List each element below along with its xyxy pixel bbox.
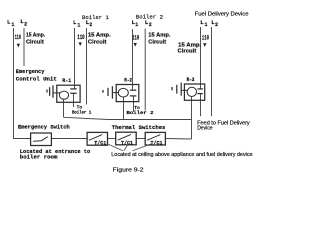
wire L2 fuel delivery — [211, 27, 213, 116]
svg-text:2: 2 — [24, 22, 27, 28]
relay R-1 contact bar bottom — [70, 92, 76, 94]
relay R-1 plug wire to coil — [54, 92, 61, 94]
svg-text:R-2: R-2 — [124, 77, 132, 83]
relay R-1 coil circle — [59, 91, 68, 99]
svg-text:1: 1 — [135, 22, 138, 28]
svg-text:To: To — [77, 104, 83, 110]
svg-text:Emergency Switch: Emergency Switch — [18, 125, 70, 131]
wire R-3 coil return down to thermal bus — [191, 96, 193, 139]
wire L1 feed boiler1 into R-1 contact — [74, 28, 76, 89]
wire coil-return bus — [64, 117, 192, 119]
emergency switch blade — [33, 137, 48, 142]
wire R-1 contact output stub (To Boiler 1) — [73, 93, 75, 107]
relay R-3 plug bar short — [171, 87, 173, 90]
relay R-1 plug bar medium — [49, 87, 51, 96]
wire L2 boiler1 — [86, 28, 88, 105]
thermal switch T/C1 (third) — [145, 132, 165, 145]
wire thermal bus: emergency switch to T/C1 — [51, 138, 87, 140]
wire R-1 coil return — [63, 99, 65, 117]
thermal switch T/C1 (first) — [87, 132, 107, 145]
svg-text:R-3: R-3 — [187, 77, 195, 83]
relay R-2 contact bar top — [130, 89, 136, 91]
svg-text:T/C1: T/C1 — [121, 141, 133, 147]
wire thermal bus: third thermal switch to R-3 coil return — [165, 138, 191, 141]
thermal switch 3 box — [145, 132, 165, 145]
relay R-1 contact bar top — [70, 88, 76, 90]
svg-text:1: 1 — [77, 22, 80, 28]
relay R-2 box — [116, 85, 139, 102]
thermal switch 3 blade — [147, 135, 160, 141]
svg-text:110: 110 — [202, 34, 209, 41]
relay R-3 contact bar bottom — [197, 93, 203, 95]
svg-text:Circuit: Circuit — [88, 40, 107, 46]
svg-text:1: 1 — [205, 22, 208, 28]
svg-text:15 Amp.: 15 Amp. — [88, 33, 111, 39]
emergency switch box — [31, 133, 52, 146]
svg-text:2: 2 — [149, 22, 152, 28]
wire R-2 contact output stub (To Boiler 2) — [133, 96, 135, 112]
relay R-3 coil circle — [187, 87, 196, 96]
svg-text:Device: Device — [197, 126, 213, 132]
svg-text:110: 110 — [132, 35, 139, 42]
svg-text:Located at ceiling above appli: Located at ceiling above appliance and f… — [111, 152, 253, 158]
relay R-3 box — [184, 84, 204, 100]
svg-text:Boiler 1: Boiler 1 — [72, 110, 92, 116]
wire L1 feed fuel delivery into R-3 contact — [200, 27, 202, 89]
wire R-2 coil return — [123, 97, 125, 120]
wire thermal bus: left rail to emergency switch — [13, 138, 31, 140]
wire R-3 contact output stub (Feed to Fuel Delivery Device) — [200, 94, 202, 117]
wire L2 group1 — [23, 28, 25, 66]
svg-text:15 Amp.: 15 Amp. — [148, 33, 171, 39]
wire L1 feed boiler2 into R-2 contact — [132, 29, 134, 90]
svg-text:110: 110 — [15, 34, 21, 41]
svg-text:Figure 9-2: Figure 9-2 — [113, 168, 144, 174]
svg-text:1: 1 — [11, 22, 14, 28]
wire thermal bus: T/C1 to second thermal switch — [108, 138, 116, 140]
relay R-2 coil circle — [118, 88, 128, 97]
svg-text:2: 2 — [215, 22, 218, 28]
callout line from thermal switch 2 — [124, 144, 129, 151]
svg-text:Control Unit: Control Unit — [16, 76, 57, 82]
relay R-3 plug bar tall — [180, 83, 182, 96]
callout line from thermal switch 3 — [133, 144, 152, 151]
svg-text:Boiler 2: Boiler 2 — [127, 110, 154, 116]
svg-text:T/C1: T/C1 — [151, 141, 163, 147]
callout line from thermal switch 1 — [107, 144, 122, 151]
relay R-1 plug bar tall — [52, 85, 54, 97]
arrow 110V boiler1 — [79, 42, 82, 46]
relay R-3 — [172, 83, 205, 101]
svg-text:Boiler 2: Boiler 2 — [136, 14, 164, 21]
thermal switch T/C1 (second) — [116, 132, 137, 145]
svg-text:Emergency: Emergency — [16, 69, 45, 75]
relay R-3 plug wire to coil — [182, 89, 188, 91]
arrow 110V group1 — [17, 44, 20, 48]
relay R-1 plug bar short — [46, 90, 48, 93]
thermal switch 1 box — [87, 132, 107, 145]
relay R-2 — [103, 85, 139, 102]
relay R-3 plug bar medium — [176, 85, 178, 94]
svg-text:110: 110 — [77, 34, 85, 41]
svg-text:T/C1: T/C1 — [94, 141, 106, 147]
svg-text:R-1: R-1 — [62, 78, 71, 84]
arrow 110V boiler2 — [134, 43, 137, 47]
relay R-2 plug bar short — [102, 90, 104, 93]
relay R-1 box — [57, 85, 80, 102]
svg-text:Thermal Switches: Thermal Switches — [112, 125, 166, 131]
relay R-2 plug wire to coil — [113, 92, 119, 94]
relay R-2 plug bar tall — [111, 86, 113, 99]
arrow 110V fuel delivery — [203, 43, 206, 47]
svg-text:boiler room: boiler room — [20, 155, 58, 161]
thermal switch 2 blade — [118, 134, 131, 140]
thermal switch 2 box — [116, 132, 137, 145]
svg-text:Fuel Delivery Device: Fuel Delivery Device — [195, 12, 249, 18]
svg-text:15 Amp.: 15 Amp. — [26, 33, 46, 39]
emergency switch SW1 — [31, 133, 52, 146]
thermal switch 1 blade — [89, 135, 102, 141]
svg-text:Circuit: Circuit — [178, 48, 197, 54]
svg-text:Circuit: Circuit — [26, 39, 44, 45]
wire L1 rail group1 (emergency control) — [13, 28, 15, 139]
svg-text:Circuit: Circuit — [148, 40, 166, 46]
svg-text:2: 2 — [89, 22, 92, 28]
relay R-2 plug bar medium — [107, 88, 109, 96]
wire L2 boiler2 — [144, 29, 146, 111]
relay R-3 contact bar top — [197, 88, 203, 90]
relay R-1 — [47, 85, 80, 102]
wire thermal bus: second to third thermal switch — [136, 138, 145, 140]
relay R-2 contact bar bottom — [130, 95, 136, 97]
